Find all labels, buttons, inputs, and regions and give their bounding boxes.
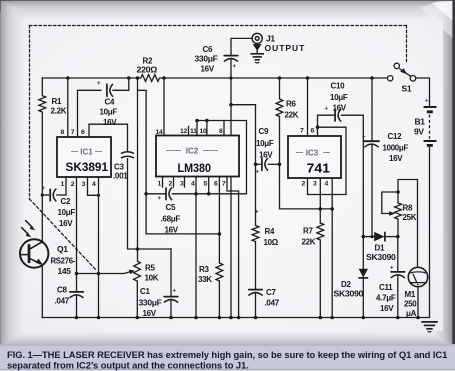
svg-text:16V: 16V: [389, 154, 403, 163]
wire: C1 top lead: [170, 249, 172, 296]
wire: R7 bottom to ground rail: [319, 240, 321, 318]
wire: C6 node to C9 column: [231, 104, 256, 106]
svg-text:6: 6: [311, 128, 315, 135]
wire: left vertical (R1/C2/Q1 column) upper: [41, 78, 43, 96]
wire: IC3 pin6 stub: [317, 127, 319, 136]
svg-text:12: 12: [180, 128, 187, 135]
wire: C9 node down and over to IC3 pin3/R7: [280, 164, 333, 209]
wire: R8 bottom lead to D1 node: [397, 219, 399, 237]
svg-text:10μF: 10μF: [256, 139, 274, 148]
svg-text:33K: 33K: [198, 275, 212, 284]
capacitor C2 10uF 16V plates: [49, 189, 51, 201]
resistor R1 2.2K: [39, 96, 46, 112]
svg-text:R7: R7: [303, 227, 313, 236]
svg-text:R1: R1: [52, 97, 62, 106]
svg-text:10K: 10K: [145, 274, 159, 283]
svg-text:250: 250: [404, 300, 417, 309]
wire: R6 top lead from rail: [279, 78, 281, 99]
wire: C5 right lead / bypass bracket to pin8 loop: [172, 121, 246, 194]
svg-text:+: +: [325, 107, 329, 113]
svg-text:11: 11: [190, 128, 197, 135]
svg-text:1: 1: [61, 181, 65, 188]
resistor R7 22K: [317, 223, 324, 240]
dashed shield enclosure left: [29, 26, 31, 200]
svg-text:7: 7: [300, 128, 304, 135]
inner schematic paper: [24, 20, 443, 331]
capacitor C8 .047 plates: [70, 291, 83, 293]
capacitor C9 10uF plates: [261, 159, 263, 171]
svg-text:.68μF: .68μF: [161, 215, 181, 224]
svg-text:FIG. 1—THE LASER RECEIVER has: FIG. 1—THE LASER RECEIVER has extremely …: [7, 349, 447, 360]
op-amp IC3 741 box: [288, 136, 341, 178]
svg-text:10Ω: 10Ω: [264, 238, 279, 247]
op-amp IC1 SK3891 box: [57, 137, 111, 177]
junction dots ground rail: [75, 316, 79, 320]
svg-text:1000μF: 1000μF: [383, 144, 409, 153]
svg-text:330μF: 330μF: [139, 299, 162, 308]
wire: IC1 pin7 stub and C4 left lead: [78, 90, 101, 137]
wire: R5 wiper wire from C8 node: [77, 271, 132, 273]
wire: C7 bottom to ground rail: [255, 293, 257, 318]
svg-text:+: +: [173, 289, 177, 295]
capacitor C1 330uF plates: [164, 296, 177, 298]
op-amp IC2 LM380 box: [156, 136, 239, 177]
wire: M1 bottom to ground rail: [417, 287, 419, 318]
wire: C4 right lead up to rail: [113, 78, 129, 90]
svg-text:R2: R2: [143, 57, 153, 66]
svg-text:10μF: 10μF: [58, 208, 76, 217]
capacitor C6 330uF plates: [224, 55, 237, 57]
svg-text:22K: 22K: [302, 238, 316, 247]
svg-text:16V: 16V: [59, 219, 73, 228]
svg-text:7: 7: [222, 181, 226, 188]
caption strip: [0, 344, 455, 371]
svg-text:6: 6: [214, 181, 218, 188]
wire: IC2 pin3 stub: [184, 177, 186, 188]
svg-text:16V: 16V: [165, 226, 179, 235]
svg-text:9V: 9V: [414, 127, 424, 137]
svg-text:8: 8: [61, 129, 65, 136]
svg-text:C4: C4: [105, 98, 115, 107]
ground symbol at battery/meter bottom right: [421, 322, 437, 332]
svg-text:μA: μA: [406, 309, 417, 318]
svg-text:.047: .047: [265, 299, 280, 308]
svg-text:+: +: [256, 170, 260, 176]
wire: Q1 emitter down to ground rail corner: [41, 264, 43, 317]
junction dots mid circuit: [229, 103, 233, 107]
capacitor C11 4.7uF plates: [391, 271, 404, 273]
resistor R4 10 ohm: [252, 225, 259, 241]
capacitor C4 10uF 16V plates: [106, 84, 108, 96]
svg-text:16V: 16V: [103, 118, 117, 127]
svg-text:SK3090: SK3090: [334, 290, 364, 299]
jack J1: [252, 33, 262, 43]
R5 wiper arrowhead: [129, 270, 135, 275]
wire: C11 bottom to ground rail: [397, 275, 399, 317]
wire: C12 bottom down to D1 wire: [371, 145, 373, 237]
wire: IC2 pin7 ground bracket: [227, 177, 239, 318]
svg-text:IC1: IC1: [80, 148, 93, 157]
ground symbol at J1: [250, 45, 264, 63]
svg-text:4: 4: [325, 181, 329, 188]
wire: R6 bottom to C9 node: [279, 117, 281, 165]
R8 wiper arrowhead: [389, 211, 395, 216]
svg-text:SK3090: SK3090: [366, 253, 396, 262]
svg-text:220Ω: 220Ω: [137, 66, 158, 75]
svg-text:3: 3: [82, 181, 86, 188]
svg-text:+: +: [255, 210, 259, 216]
wire: IC2 pin11 stub: [196, 121, 198, 136]
wire: IC2 pin6 stub down to R3: [218, 177, 220, 264]
resistor R5 10K potentiometer: [134, 261, 141, 281]
wire: C6 top lead and J1 feed: [231, 38, 252, 55]
svg-text:R8: R8: [403, 204, 413, 213]
resistor R8 25K rheostat: [395, 203, 402, 219]
wire: C9 right lead: [268, 163, 279, 165]
wire: IC1 pins3-4 join: [88, 177, 99, 195]
svg-text:16V: 16V: [333, 104, 347, 113]
svg-text:separated from IC2’s output an: separated from IC2’s output and the conn…: [7, 359, 249, 370]
wire: R8 wiper rheostat loop: [382, 192, 398, 214]
svg-text:C1: C1: [140, 287, 150, 296]
wire: IC3 pin3 stub to R7: [319, 178, 321, 223]
wire: C5 left lead from C4 line: [146, 193, 166, 195]
wire: IC1 pin6 bracket to C3: [89, 124, 128, 152]
svg-text:R5: R5: [145, 264, 155, 273]
resistor R6 22K: [276, 99, 283, 117]
wire: C8 bottom to ground rail: [76, 295, 78, 317]
svg-text:10μF: 10μF: [100, 108, 118, 117]
svg-text:R6: R6: [286, 100, 296, 109]
svg-text:+: +: [390, 266, 394, 272]
wire: IC3 pin4 stub to ground rail: [331, 178, 333, 318]
svg-text:IC2: IC2: [186, 147, 199, 156]
dashed shield diagonal near Q1: [30, 199, 98, 271]
diode D1 SK3090: [374, 232, 385, 242]
wire: rail to R5 vertical line: [137, 78, 139, 261]
svg-text:C5: C5: [166, 203, 176, 212]
wire: rail from S1 to battery: [416, 78, 430, 106]
svg-text:S1: S1: [402, 84, 412, 94]
svg-text:741: 741: [307, 162, 331, 176]
wire: R8 top lead: [397, 192, 399, 203]
wire: C3 bottom to R5 top node: [128, 159, 172, 249]
wire: IC2 pin10 stub: [206, 121, 208, 136]
wire: D2 top lead: [362, 237, 364, 269]
svg-text:C9: C9: [259, 127, 269, 136]
svg-text:10μF: 10μF: [330, 93, 348, 102]
junction dots top rail: [66, 76, 70, 80]
wire: C2 left lead: [42, 194, 50, 196]
svg-text:D2: D2: [341, 280, 351, 289]
svg-text:C8: C8: [57, 286, 67, 295]
svg-text:C3: C3: [114, 163, 124, 172]
wire: IC3 feedback pin6 to pin2: [308, 127, 347, 194]
svg-text:14: 14: [156, 129, 163, 136]
wire: ground bottom rail: [42, 317, 429, 319]
dashed shield enclosure right: [406, 26, 408, 62]
svg-text:4: 4: [92, 181, 96, 188]
svg-text:B1: B1: [415, 117, 426, 127]
svg-text:22K: 22K: [285, 111, 299, 120]
svg-text:IC3: IC3: [306, 149, 319, 158]
svg-text:.001: .001: [113, 172, 128, 181]
svg-text:2: 2: [302, 181, 306, 188]
svg-text:+: +: [158, 196, 162, 202]
wire: C12 line from rail: [371, 78, 373, 141]
svg-text:D1: D1: [375, 244, 385, 253]
svg-text:.047: .047: [55, 297, 70, 306]
svg-text:16V: 16V: [259, 151, 273, 160]
svg-text:10: 10: [200, 128, 207, 135]
switch S1: [388, 63, 416, 81]
wire: R5 bottom to ground rail: [136, 281, 138, 318]
wire: IC2 pin5 stub to bypass wire: [208, 177, 210, 194]
dashed shield enclosure top: [30, 25, 407, 27]
svg-text:R4: R4: [265, 227, 275, 236]
svg-text:6: 6: [81, 129, 85, 136]
svg-text:C6: C6: [203, 45, 213, 54]
svg-text:R3: R3: [199, 265, 209, 274]
bevel frame top band: [1, 1, 452, 21]
wire: R4 bottom to C7: [255, 242, 257, 290]
svg-text:145: 145: [58, 266, 72, 276]
wire: C1 bottom to ground rail: [170, 300, 172, 318]
svg-text:4: 4: [191, 181, 195, 188]
svg-text:+: +: [362, 135, 366, 141]
svg-text:RS276-: RS276-: [51, 256, 76, 266]
wire: left vertical below R1 to Q1 collector: [41, 112, 43, 242]
wire: C9 left lead: [256, 163, 262, 165]
svg-text:2: 2: [71, 181, 75, 188]
svg-text:M1: M1: [405, 290, 416, 299]
wire: C2 right lead to IC1 pin1: [57, 177, 66, 195]
wire: R8 top bracket over to meter: [398, 180, 418, 268]
wire: IC2 pin4 stub to ground rail: [195, 177, 197, 318]
svg-text:C7: C7: [266, 288, 276, 297]
svg-text:2.2K: 2.2K: [51, 107, 67, 116]
svg-text:16V: 16V: [201, 65, 215, 74]
capacitor C12 1000uF plates: [364, 140, 379, 142]
top-right corner highlight: [420, 1, 452, 38]
svg-text:LM380: LM380: [178, 163, 212, 175]
svg-text:330μF: 330μF: [195, 55, 218, 64]
wire: IC1 pin2 stub down to C8 node: [76, 177, 78, 274]
svg-text:OUTPUT: OUTPUT: [265, 43, 306, 53]
svg-text:C10: C10: [331, 82, 346, 91]
capacitor C7 .047 plates: [249, 289, 262, 291]
svg-text:+: +: [425, 99, 429, 105]
wire: V+ top rail left section: [42, 77, 137, 79]
battery B1 9V: [424, 107, 437, 318]
resistor R3 33K: [216, 263, 223, 281]
svg-text:1: 1: [158, 181, 162, 188]
bevel frame left band: [1, 1, 24, 345]
wire: C10 left bracket from pin6 node: [318, 115, 335, 127]
svg-text:4.7μF: 4.7μF: [376, 294, 396, 303]
resistor R2 220 ohm: [138, 75, 165, 82]
svg-text:3: 3: [180, 181, 184, 188]
wire: R3 bottom to ground rail: [218, 281, 220, 318]
svg-text:16V: 16V: [143, 309, 157, 318]
wire: D1 right lead: [385, 236, 398, 238]
wire: IC2 pin14 stub to rail: [163, 78, 165, 136]
wire: D1 left lead: [363, 236, 374, 238]
svg-text:25K: 25K: [403, 213, 417, 222]
bevel frame right band: [431, 1, 452, 345]
light arrows into Q1: [21, 220, 35, 237]
wire: IC2 pin12 short stub: [188, 127, 190, 136]
meter M1 250uA: [408, 267, 427, 286]
svg-text:C11: C11: [379, 283, 393, 292]
svg-text:2: 2: [169, 181, 173, 188]
diode D2 SK3090: [358, 269, 368, 278]
capacitor C5 .68uF plates: [165, 188, 167, 200]
svg-text:3: 3: [313, 181, 317, 188]
wire: IC3 pin7 stub to rail: [307, 78, 309, 136]
wire: C9/R4/C7 column upper: [255, 105, 257, 226]
wire: IC2 pin8 stub: [223, 121, 225, 136]
svg-text:8: 8: [219, 128, 223, 135]
capacitor C10 10uF plates: [334, 109, 336, 121]
capacitor C3 .001 plates: [122, 152, 134, 153]
transistor Q1 RS276-145 phototransistor: [20, 239, 48, 267]
wire: branch from R5 line to C5/R3 line: [138, 90, 220, 234]
wire: C8 top lead: [76, 274, 78, 292]
svg-text:SK3891: SK3891: [66, 162, 109, 174]
svg-text:16V: 16V: [380, 304, 394, 313]
wire: C11 top lead: [397, 237, 399, 272]
wire: IC1 pin8 stub to rail: [67, 78, 69, 137]
wire: IC2 pin2 stub: [173, 177, 175, 188]
svg-text:7: 7: [71, 129, 75, 136]
wire: IC2 pin1 stub: [162, 177, 164, 188]
svg-text:+: +: [97, 81, 101, 87]
wire: C6 bottom through rail down to ground rail: [230, 59, 232, 318]
svg-text:C2: C2: [61, 197, 71, 206]
svg-text:+: +: [233, 64, 237, 70]
svg-text:C12: C12: [388, 132, 403, 141]
wire: C10 right lead down to D1: [341, 115, 363, 236]
wire: D2 bottom to ground rail: [362, 278, 364, 318]
bevel frame bottom band: [1, 331, 452, 345]
svg-text:Q1: Q1: [57, 244, 68, 254]
wire: IC1 pins3/4 line down to ground rail: [98, 195, 100, 317]
wire: V+ top rail right section: [164, 77, 387, 79]
svg-text:5: 5: [204, 181, 208, 188]
svg-text:+: +: [42, 186, 46, 192]
